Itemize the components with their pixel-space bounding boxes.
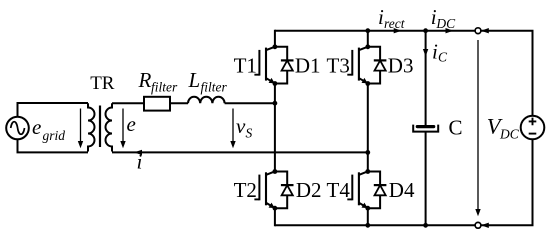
label i_DC bbox=[431, 5, 456, 31]
node: return junction bbox=[365, 150, 370, 155]
wire: left leg segments bbox=[274, 30, 276, 227]
arrow: i_DC on top rail bbox=[446, 28, 454, 33]
wire: grid loop bottom bbox=[18, 139, 89, 152]
wire: inductor to bridge, node vS bbox=[225, 102, 275, 104]
svg-text:T1: T1 bbox=[234, 54, 257, 78]
wire: secondary top to resistor bbox=[112, 102, 144, 104]
svg-text:e: e bbox=[127, 112, 136, 136]
transistor T3 bbox=[347, 44, 370, 86]
node: top rail T3 leg bbox=[365, 28, 370, 33]
label R_filter bbox=[138, 68, 178, 95]
wire: resistor to inductor bbox=[170, 102, 188, 104]
svg-text:T4: T4 bbox=[327, 178, 351, 202]
transistor T2 bbox=[254, 169, 277, 211]
svg-text:i: i bbox=[137, 150, 143, 174]
wire: return (secondary bottom to right leg) bbox=[112, 151, 368, 153]
arrow: V_DC voltage between terminals bbox=[475, 40, 480, 216]
svg-text:rect: rect bbox=[384, 16, 406, 31]
node: bottom rail capacitor branch bbox=[423, 223, 428, 228]
svg-text:filter: filter bbox=[151, 80, 178, 95]
wire: capacitor branch bbox=[425, 31, 427, 226]
label vS bbox=[236, 114, 253, 141]
label i_rect bbox=[378, 5, 406, 31]
svg-text:C: C bbox=[438, 50, 448, 65]
wire: V_DC loop top bbox=[481, 31, 533, 116]
wire: grid loop top bbox=[18, 103, 89, 117]
node: top rail capacitor branch bbox=[423, 28, 428, 33]
label i_C bbox=[432, 40, 448, 65]
svg-text:T2: T2 bbox=[234, 178, 257, 202]
wire: V_DC loop bottom bbox=[481, 139, 533, 225]
resistor R_filter bbox=[144, 97, 170, 111]
svg-text:grid: grid bbox=[43, 128, 66, 143]
terminal: bottom bbox=[475, 222, 481, 228]
svg-text:S: S bbox=[246, 126, 253, 141]
svg-text:DC: DC bbox=[435, 16, 456, 31]
node: vS junction bbox=[273, 101, 278, 106]
arrow: i_C bbox=[423, 49, 428, 57]
transistor T1 bbox=[254, 44, 277, 86]
diode D2 bbox=[275, 172, 294, 209]
wire: top rail bbox=[275, 30, 478, 32]
arrow: current i bbox=[134, 150, 142, 155]
svg-text:L: L bbox=[188, 68, 201, 92]
capacitor C bbox=[413, 125, 438, 132]
inductor L_filter bbox=[188, 97, 225, 103]
svg-text:D2: D2 bbox=[296, 178, 322, 202]
arrow: voltage vS bbox=[230, 109, 235, 149]
svg-text:C: C bbox=[449, 116, 463, 140]
svg-text:filter: filter bbox=[201, 80, 228, 95]
svg-text:D1: D1 bbox=[295, 54, 321, 78]
svg-text:D4: D4 bbox=[389, 178, 415, 202]
arrow: grid voltage bbox=[78, 109, 83, 149]
transistor T4 bbox=[347, 169, 370, 211]
svg-text:D3: D3 bbox=[388, 54, 414, 78]
source V_DC bbox=[521, 116, 545, 140]
svg-text:v: v bbox=[236, 114, 246, 138]
label V_DC bbox=[487, 114, 520, 142]
svg-text:TR: TR bbox=[90, 73, 115, 94]
node: bottom rail T4 leg bbox=[365, 223, 370, 228]
transformer secondary winding bbox=[106, 103, 112, 151]
transformer primary winding bbox=[88, 103, 95, 151]
label e_grid bbox=[32, 115, 65, 143]
arrow: secondary emf e bbox=[120, 109, 125, 149]
diode D3 bbox=[368, 47, 387, 84]
wire: bottom rail bbox=[275, 224, 478, 226]
svg-text:R: R bbox=[138, 68, 152, 92]
arrow into bottom terminal bbox=[481, 223, 489, 228]
terminal: top bbox=[475, 28, 481, 34]
svg-text:DC: DC bbox=[499, 127, 520, 142]
diode D1 bbox=[275, 47, 294, 84]
transformer core bbox=[99, 106, 101, 148]
ac source e_grid bbox=[6, 117, 29, 140]
wire: right leg segments bbox=[367, 30, 369, 227]
label L_filter bbox=[188, 68, 228, 95]
svg-text:e: e bbox=[32, 115, 41, 139]
svg-text:T3: T3 bbox=[327, 54, 350, 78]
arrow into top terminal bbox=[481, 28, 489, 33]
diode D4 bbox=[368, 172, 387, 209]
arrow: i_rect on top rail bbox=[394, 28, 402, 33]
